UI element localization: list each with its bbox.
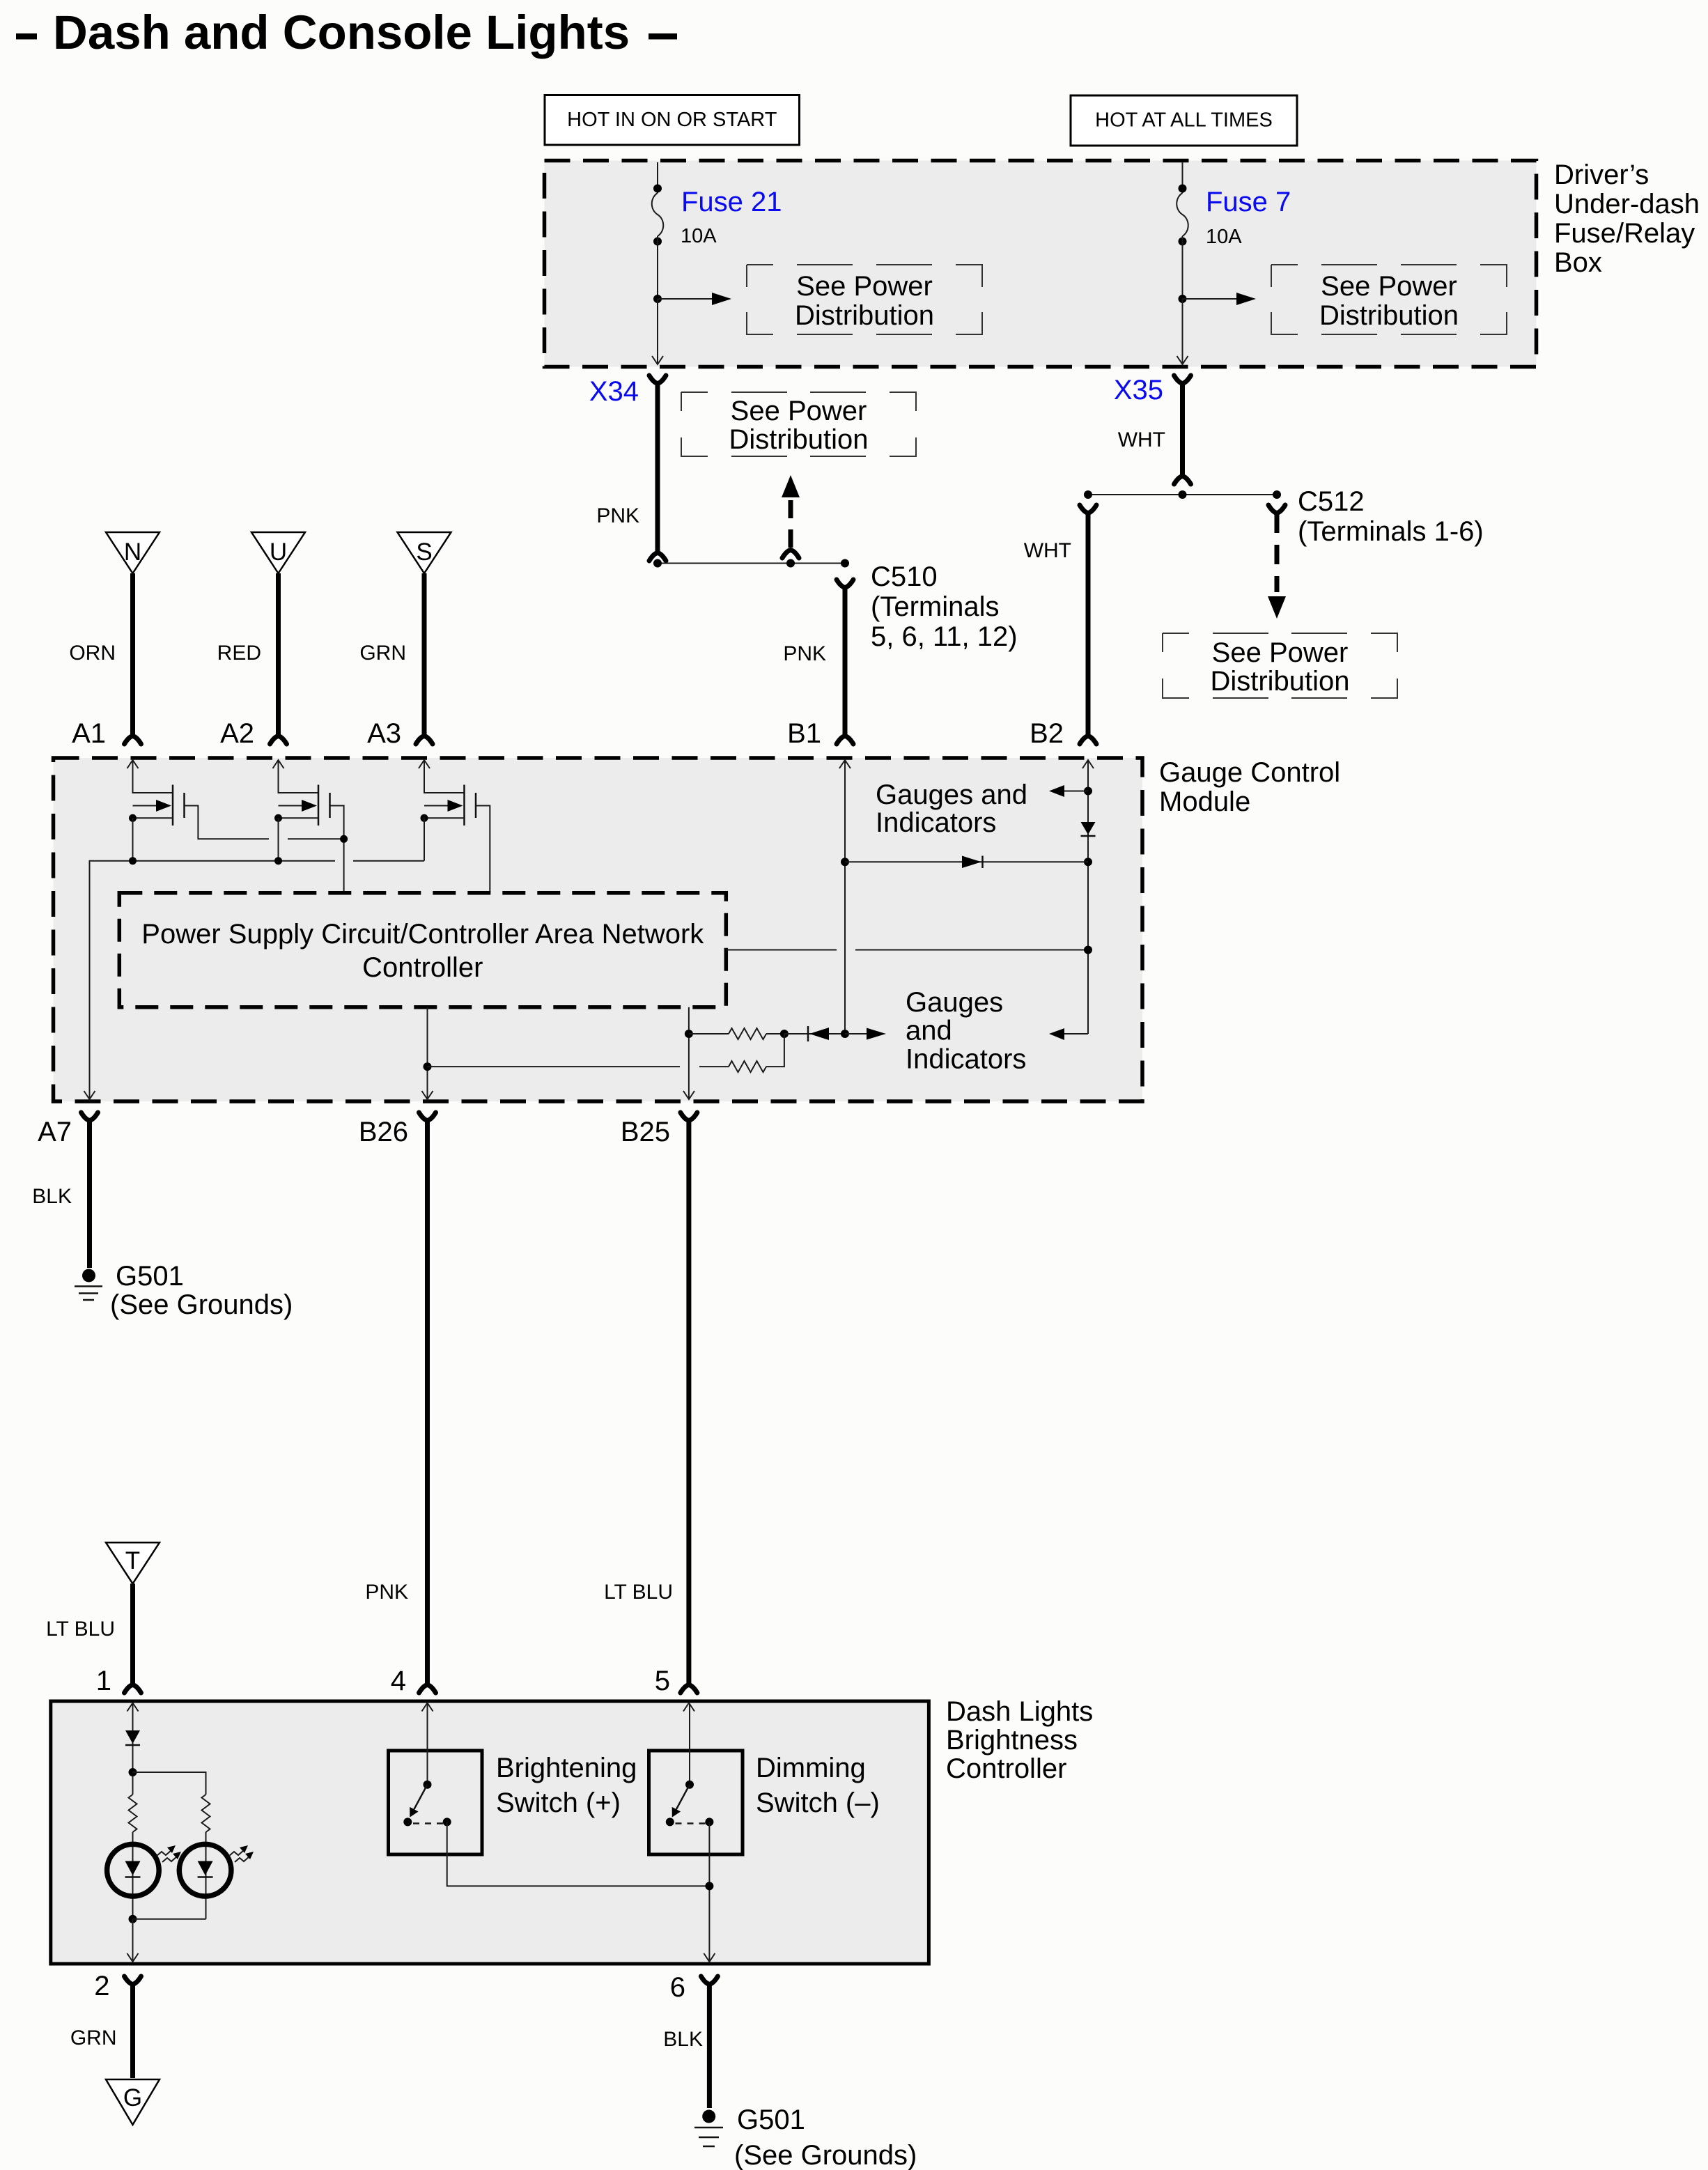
wire: B25 internal line	[685, 1007, 693, 1099]
svg-text:5: 5	[655, 1666, 670, 1696]
pin 1 arrow (controller)	[127, 1703, 139, 1712]
svg-text:Box: Box	[1554, 247, 1602, 278]
svg-text:Switch (+): Switch (+)	[496, 1788, 621, 1818]
svg-text:Controller: Controller	[946, 1753, 1066, 1784]
svg-text:RED: RED	[217, 642, 261, 665]
wire: junction line below X34	[653, 559, 849, 568]
svg-text:C510: C510	[871, 561, 938, 592]
connector X34	[589, 375, 666, 407]
LED LED1	[107, 1844, 181, 1896]
svg-text:WHT: WHT	[1118, 428, 1165, 451]
svg-text:Dimming: Dimming	[756, 1753, 866, 1783]
pin B2 arrow (module)	[1082, 760, 1094, 768]
connector X35	[1114, 375, 1191, 405]
pin B25 arrow (module)	[683, 1091, 694, 1099]
diode D3 (pointing left) with arrow to gauges	[784, 1026, 886, 1041]
pin A2 arrow (module)	[273, 760, 284, 768]
svg-text:PNK: PNK	[783, 642, 826, 665]
pin 4 arrow (controller)	[422, 1703, 433, 1712]
wire: Q2 gate lead down to controller	[330, 806, 348, 893]
svg-text:G: G	[123, 2084, 142, 2111]
svg-text:5, 6, 11, 12): 5, 6, 11, 12)	[871, 621, 1018, 652]
node N (triangle)	[106, 532, 160, 573]
svg-text:See Power: See Power	[796, 271, 933, 302]
switch: Dimming Switch (-)	[649, 1704, 880, 1960]
wire: arrow to See Power Distribution (fuse 7)	[1183, 293, 1257, 305]
wire: pin 6 BLK to ground	[663, 1984, 709, 2108]
LED LED2	[179, 1844, 254, 1896]
Driver's Under-dash Fuse/Relay Box (dashed enclosure)	[545, 161, 1537, 367]
svg-text:GRN: GRN	[359, 642, 406, 665]
switch: Brightening Switch (+)	[389, 1704, 710, 1886]
resistor R4 (right LED branch)	[202, 1795, 210, 1919]
svg-text:Fuse 21: Fuse 21	[681, 187, 782, 217]
node: LED branch bottom	[129, 1915, 206, 1960]
svg-text:U: U	[270, 538, 287, 566]
label: Gauges and Indicators (upper)	[876, 780, 1027, 838]
wire: pin 1 internal chain	[132, 1704, 134, 1795]
reference bracket: See Power Distribution (in fuse box, right)	[1271, 265, 1507, 334]
pin 6 arrow (controller)	[704, 1953, 715, 1962]
svg-text:T: T	[125, 1547, 140, 1574]
wire: pin 2 GRN to G	[70, 1984, 133, 2078]
diode D4 on pin 1 line	[125, 1730, 140, 1745]
diode D2 on cross link (pointing right)	[962, 856, 983, 869]
svg-text:LT BLU: LT BLU	[604, 1581, 673, 1604]
svg-text:C512: C512	[1298, 486, 1365, 517]
wire: X35 WHT	[1118, 383, 1191, 484]
svg-text:Brightness: Brightness	[946, 1725, 1078, 1756]
connector B25	[621, 1113, 697, 1147]
label: Gauge Control Module	[1159, 757, 1340, 817]
pin A1 arrow (module)	[127, 760, 139, 768]
node: LED branch top	[129, 1768, 206, 1795]
wire: B26 PNK down to pin 4	[365, 1122, 435, 1696]
connector C510	[837, 561, 1018, 652]
svg-text:See Power: See Power	[731, 396, 867, 426]
pin B1 arrow (module)	[839, 760, 851, 768]
wire: controller to B2 line	[726, 946, 1092, 954]
svg-text:Module: Module	[1159, 786, 1250, 817]
svg-text:PNK: PNK	[365, 1581, 408, 1604]
Power Supply Circuit/Controller Area Network Controller (dashed box)	[119, 893, 726, 1007]
label: Driver's Under-dash Fuse/Relay Box	[1554, 160, 1700, 278]
svg-text:Indicators: Indicators	[876, 807, 996, 838]
fuse Fuse 21 10A	[652, 162, 782, 299]
node U (triangle)	[251, 532, 305, 573]
title	[16, 6, 677, 59]
connector pin 2	[94, 1971, 141, 2001]
svg-text:Driver’s: Driver’s	[1554, 160, 1649, 190]
wire: source bus to A7	[90, 857, 425, 1099]
svg-text:BLK: BLK	[32, 1185, 72, 1208]
node T (triangle)	[106, 1542, 160, 1583]
svg-text:(Terminals 1-6): (Terminals 1-6)	[1298, 516, 1484, 547]
wire: S to A3, GRN	[359, 573, 433, 749]
connector pin 6	[670, 1972, 718, 2003]
pin A3 arrow (module)	[419, 760, 430, 768]
wire: T LT BLU down to pin 1	[46, 1583, 141, 1696]
svg-text:GRN: GRN	[70, 2026, 117, 2049]
wire: U to A2, RED	[217, 573, 287, 749]
svg-text:ORN: ORN	[69, 642, 116, 665]
svg-text:(Terminals: (Terminals	[871, 591, 999, 622]
wire: B2 internal line	[1087, 761, 1089, 1034]
svg-text:Brightening: Brightening	[496, 1753, 637, 1783]
wire: N to A1, ORN	[69, 573, 141, 749]
svg-text:Under-dash: Under-dash	[1554, 189, 1700, 219]
fuse Fuse 7 10A	[1177, 162, 1291, 299]
resistor R3 (left LED branch)	[129, 1795, 137, 1832]
node G (triangle)	[106, 2079, 160, 2125]
svg-text:Power Supply Circuit/Controlle: Power Supply Circuit/Controller Area Net…	[141, 919, 704, 950]
wire: B2 branch down with arrow left	[1049, 1028, 1088, 1040]
reference bracket: See Power Distribution (below C512)	[1163, 633, 1397, 698]
svg-text:Gauges: Gauges	[906, 987, 1003, 1018]
svg-text:PNK: PNK	[596, 504, 639, 527]
svg-text:1: 1	[96, 1666, 111, 1696]
svg-text:and: and	[906, 1016, 952, 1046]
ground G501 (A7)	[75, 1261, 293, 1320]
svg-text:X34: X34	[589, 376, 639, 407]
wire: B26 internal line	[424, 1007, 432, 1099]
svg-text:Distribution: Distribution	[1319, 300, 1459, 331]
Gauge Control Module (dashed enclosure)	[54, 758, 1143, 1101]
svg-text:Dash and Console Lights: Dash and Console Lights	[53, 6, 630, 59]
pin 5 arrow (controller)	[683, 1703, 694, 1712]
wire: X34 PNK	[596, 383, 666, 561]
Dash Lights Brightness Controller (solid enclosure)	[51, 1701, 929, 1964]
pin A7 arrow (module)	[84, 1091, 95, 1099]
svg-text:Gauges and: Gauges and	[876, 780, 1027, 810]
connector C512 with dashed arrow	[1268, 486, 1484, 619]
svg-text:4: 4	[391, 1666, 406, 1696]
svg-text:Distribution: Distribution	[729, 424, 868, 455]
connector A7	[38, 1113, 98, 1147]
wire: Q1 gate lead	[185, 806, 344, 839]
svg-text:A2: A2	[220, 718, 254, 749]
svg-text:Switch (–): Switch (–)	[756, 1788, 880, 1818]
svg-text:(See Grounds): (See Grounds)	[734, 2140, 917, 2170]
connector B26	[359, 1113, 436, 1147]
svg-text:Distribution: Distribution	[1210, 666, 1349, 697]
pin 2 arrow (controller)	[127, 1953, 139, 1962]
wire: C510 to B1, PNK	[783, 587, 853, 749]
svg-text:B25: B25	[621, 1117, 670, 1147]
svg-text:B26: B26	[359, 1117, 408, 1147]
svg-text:WHT: WHT	[1024, 539, 1071, 562]
wire: junction line below X35	[1084, 490, 1281, 499]
label: Gauges and Indicators (lower)	[906, 987, 1026, 1074]
svg-text:G501: G501	[737, 2105, 805, 2135]
svg-text:N: N	[124, 538, 141, 566]
svg-text:HOT IN ON OR START: HOT IN ON OR START	[567, 109, 777, 131]
label: Dash Lights Brightness Controller	[946, 1696, 1093, 1784]
wire: fuse 7 down to X35 with arrow	[1177, 299, 1188, 364]
svg-text:Dash Lights: Dash Lights	[946, 1696, 1093, 1727]
svg-text:10A: 10A	[1206, 226, 1242, 248]
svg-text:2: 2	[94, 1971, 109, 2001]
ground G501 (pin 6)	[694, 2105, 917, 2170]
svg-text:HOT AT ALL TIMES: HOT AT ALL TIMES	[1095, 109, 1273, 132]
svg-text:See Power: See Power	[1212, 637, 1349, 668]
wire: fuse 21 down to X34 with arrow	[652, 299, 663, 364]
svg-text:Fuse 7: Fuse 7	[1206, 187, 1291, 217]
pin B26 arrow (module)	[422, 1091, 433, 1099]
header box HOT AT ALL TIMES	[1071, 95, 1297, 146]
svg-text:See Power: See Power	[1321, 271, 1457, 302]
resistor R2 branch	[428, 1034, 784, 1072]
node S (triangle)	[398, 532, 451, 573]
transistor Q3 (A3 output FET)	[421, 761, 476, 861]
wire: arrow left from B2 node (gauges feed)	[1049, 785, 1092, 797]
wire: arrow to See Power Distribution (fuse 21)	[658, 293, 731, 305]
diode D1 on B2 line	[1081, 822, 1096, 836]
svg-text:Distribution: Distribution	[795, 300, 934, 331]
transistor Q1 (A1 output FET)	[129, 761, 185, 861]
reference bracket: See Power Distribution (in fuse box, left)	[747, 265, 982, 334]
svg-text:B2: B2	[1030, 718, 1064, 749]
header box HOT IN ON OR START	[545, 95, 800, 146]
wire: B1 internal line	[844, 761, 846, 1034]
wire: B1 to B2 cross link	[841, 858, 1092, 866]
svg-text:Controller: Controller	[362, 952, 483, 983]
transistor Q2 (A2 output FET)	[274, 761, 330, 861]
svg-text:10A: 10A	[681, 225, 717, 247]
wire: B25 LT BLU down to pin 5	[604, 1122, 697, 1696]
svg-text:Gauge Control: Gauge Control	[1159, 757, 1340, 788]
resistor R1	[689, 1028, 789, 1039]
svg-text:A3: A3	[367, 718, 401, 749]
svg-text:A7: A7	[38, 1117, 72, 1147]
wire: Q3 gate lead down to controller	[476, 806, 490, 893]
dashed arrow up to See Power Distribution	[782, 475, 800, 558]
reference bracket: See Power Distribution (below X34)	[681, 392, 916, 456]
svg-text:LT BLU: LT BLU	[46, 1618, 115, 1641]
svg-text:X35: X35	[1114, 375, 1163, 405]
wire: A7 BLK to ground	[32, 1122, 89, 1268]
svg-text:G501: G501	[116, 1261, 184, 1292]
node: fuse 21 junction	[653, 295, 662, 303]
wire: B2 WHT	[1024, 505, 1096, 749]
svg-text:A1: A1	[72, 718, 106, 749]
svg-text:S: S	[416, 538, 432, 566]
node: fuse 7 junction	[1179, 295, 1187, 303]
svg-text:B1: B1	[787, 718, 821, 749]
svg-text:Fuse/Relay: Fuse/Relay	[1554, 218, 1695, 249]
svg-text:(See Grounds): (See Grounds)	[110, 1289, 293, 1320]
svg-text:BLK: BLK	[663, 2028, 703, 2051]
svg-text:Indicators: Indicators	[906, 1044, 1026, 1074]
svg-text:6: 6	[670, 1972, 685, 2003]
